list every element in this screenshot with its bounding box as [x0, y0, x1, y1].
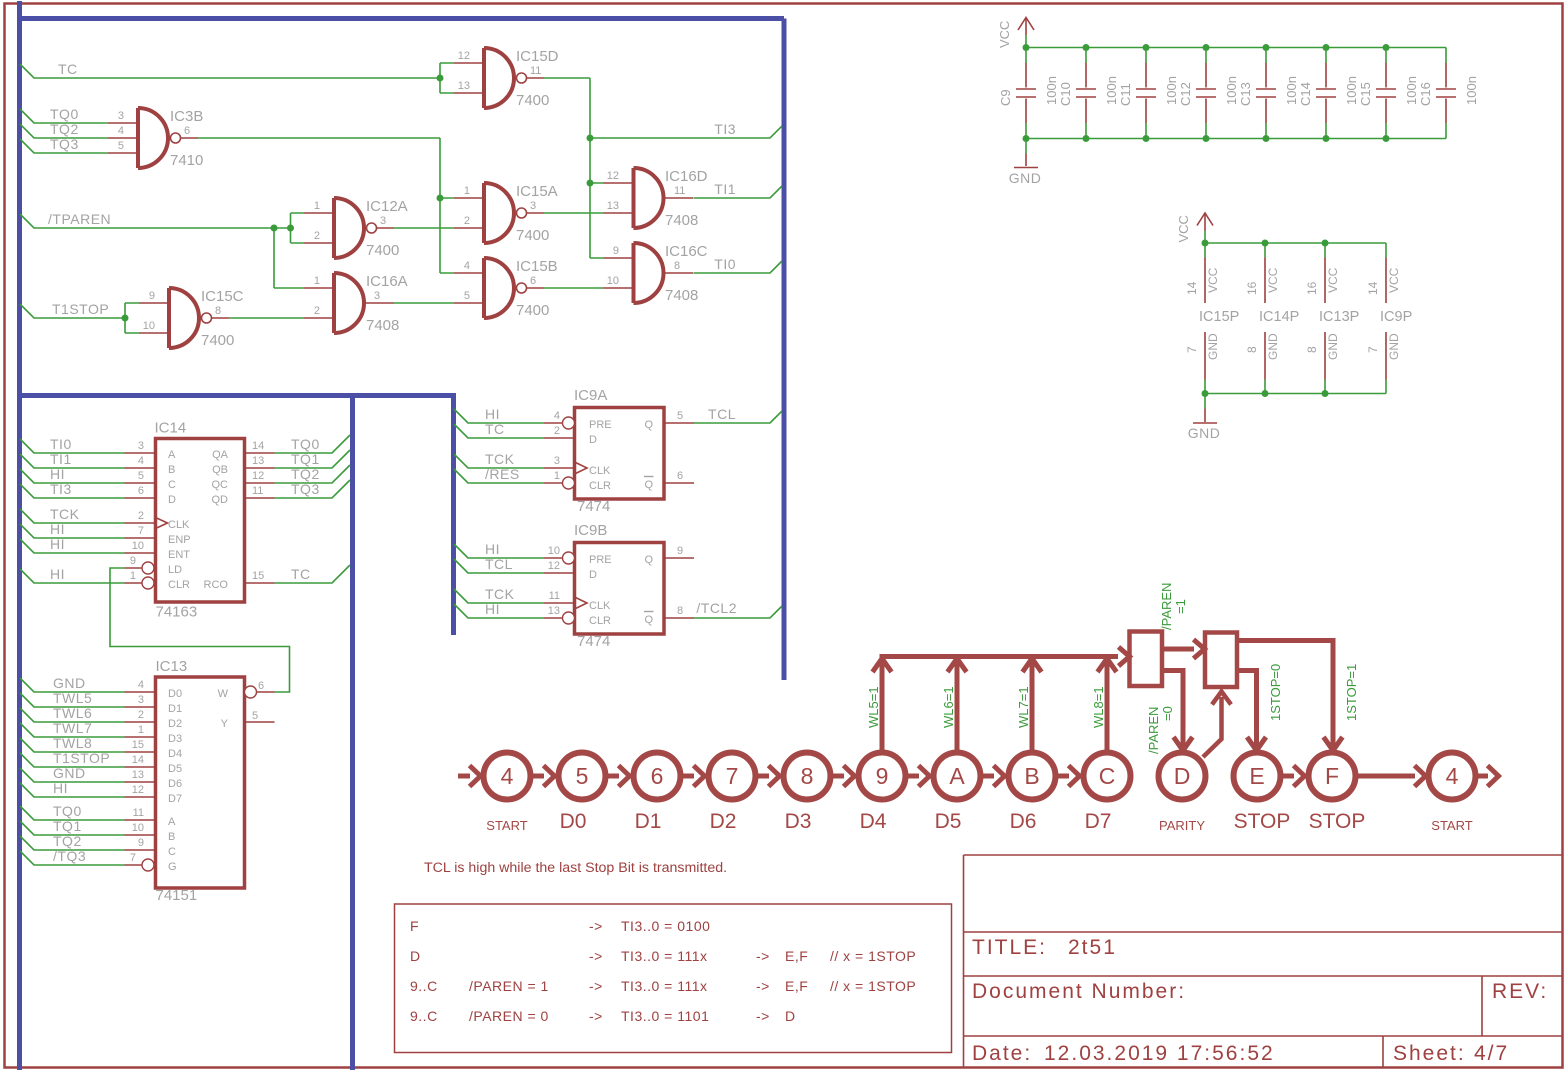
- svg-text:74151: 74151: [156, 887, 198, 904]
- svg-text:TQ0: TQ0: [53, 803, 82, 819]
- svg-text:B: B: [168, 831, 175, 843]
- svg-text:7400: 7400: [366, 242, 399, 259]
- svg-text:PRE: PRE: [589, 554, 612, 566]
- svg-text:D5: D5: [935, 810, 962, 833]
- svg-text:HI: HI: [50, 566, 65, 582]
- svg-text:100n: 100n: [1404, 76, 1419, 105]
- svg-text:D3: D3: [168, 733, 182, 745]
- svg-text:Q: Q: [644, 479, 653, 491]
- svg-text:C9: C9: [998, 89, 1013, 106]
- svg-text:100n: 100n: [1224, 76, 1239, 105]
- svg-text:CLK: CLK: [589, 600, 611, 612]
- svg-text:Y: Y: [221, 718, 229, 730]
- svg-text:TI0: TI0: [50, 436, 72, 452]
- svg-text:D4: D4: [860, 810, 887, 833]
- svg-text:Document Number:: Document Number:: [972, 980, 1186, 1003]
- svg-text:12: 12: [548, 560, 560, 572]
- svg-text:8: 8: [1305, 346, 1319, 353]
- svg-text:C14: C14: [1298, 82, 1313, 106]
- svg-text:7400: 7400: [516, 302, 549, 319]
- svg-text:VCC: VCC: [1176, 215, 1191, 242]
- svg-text:->: ->: [756, 978, 770, 994]
- svg-text:9: 9: [130, 555, 136, 567]
- svg-text:->: ->: [589, 948, 603, 964]
- svg-text:VCC: VCC: [1266, 267, 1280, 293]
- svg-text:6: 6: [651, 763, 664, 789]
- svg-text:TWL7: TWL7: [53, 720, 92, 736]
- svg-text:14: 14: [252, 440, 264, 452]
- svg-text:HI: HI: [53, 780, 68, 796]
- svg-text:3: 3: [118, 110, 124, 122]
- svg-text:HI: HI: [50, 466, 65, 482]
- svg-text:IC16C: IC16C: [665, 243, 708, 260]
- svg-text:HI: HI: [485, 541, 500, 557]
- svg-text:IC15A: IC15A: [516, 183, 558, 200]
- svg-text:/TCL2: /TCL2: [696, 600, 737, 616]
- svg-text:=0: =0: [1160, 706, 1175, 721]
- svg-text:QA: QA: [212, 449, 229, 461]
- svg-text:100n: 100n: [1044, 76, 1059, 105]
- svg-text:4: 4: [464, 260, 470, 272]
- svg-text:=1: =1: [1173, 599, 1188, 614]
- svg-text:PRE: PRE: [589, 419, 612, 431]
- svg-text:11: 11: [530, 65, 541, 77]
- svg-text:11: 11: [674, 185, 685, 197]
- svg-text:16: 16: [1305, 281, 1319, 295]
- svg-text:GND: GND: [1326, 333, 1340, 360]
- svg-text:->: ->: [756, 948, 770, 964]
- svg-text:7: 7: [138, 525, 144, 537]
- svg-text:Q: Q: [644, 614, 653, 626]
- svg-text:1: 1: [554, 470, 560, 482]
- svg-text:TWL8: TWL8: [53, 735, 92, 751]
- svg-text:WL8=1: WL8=1: [1091, 686, 1106, 728]
- svg-text:9: 9: [138, 837, 144, 849]
- svg-text:CLR: CLR: [589, 615, 611, 627]
- svg-text:VCC: VCC: [1387, 267, 1401, 293]
- svg-text:7474: 7474: [577, 498, 610, 515]
- svg-text:8: 8: [674, 260, 680, 272]
- svg-text:TWL5: TWL5: [53, 690, 92, 706]
- svg-text:WL6=1: WL6=1: [941, 686, 956, 728]
- svg-text:TQ0: TQ0: [291, 436, 320, 452]
- svg-text:11: 11: [252, 485, 263, 497]
- svg-text:TCK: TCK: [485, 451, 515, 467]
- svg-text:16: 16: [1245, 281, 1259, 295]
- svg-text:/TPAREN: /TPAREN: [48, 211, 111, 227]
- svg-text:13: 13: [458, 80, 470, 92]
- svg-text:C: C: [1099, 763, 1116, 789]
- svg-text:7400: 7400: [516, 92, 549, 109]
- svg-text:TWL6: TWL6: [53, 705, 92, 721]
- svg-text:START: START: [486, 818, 527, 833]
- svg-text:2: 2: [138, 709, 144, 721]
- svg-text:TQ1: TQ1: [53, 818, 82, 834]
- svg-text:C11: C11: [1118, 83, 1133, 106]
- svg-text:TI3: TI3: [50, 481, 72, 497]
- svg-text:ENT: ENT: [168, 549, 190, 561]
- svg-text:TI3..0 = 1101: TI3..0 = 1101: [621, 1008, 709, 1024]
- svg-text:D2: D2: [168, 718, 182, 730]
- svg-text:C: C: [168, 846, 176, 858]
- svg-text:7400: 7400: [201, 332, 234, 349]
- svg-text:TQ1: TQ1: [291, 451, 320, 467]
- svg-text:B: B: [1024, 763, 1039, 789]
- svg-text:REV:: REV:: [1492, 980, 1548, 1003]
- svg-text:D: D: [589, 434, 597, 446]
- svg-text:6: 6: [530, 275, 536, 287]
- svg-text:A: A: [949, 763, 965, 789]
- svg-text:8: 8: [677, 605, 683, 617]
- svg-text:9: 9: [149, 290, 155, 302]
- svg-text:C10: C10: [1058, 82, 1073, 106]
- svg-text:1: 1: [130, 570, 136, 582]
- svg-text:PARITY: PARITY: [1159, 818, 1205, 833]
- svg-text:4: 4: [554, 410, 560, 422]
- svg-text:7: 7: [726, 763, 739, 789]
- svg-text:TQ2: TQ2: [50, 121, 79, 137]
- svg-text:GND: GND: [53, 765, 86, 781]
- svg-text:HI: HI: [50, 521, 65, 537]
- svg-text:6: 6: [258, 680, 264, 692]
- svg-text:D1: D1: [168, 703, 182, 715]
- svg-text:IC13: IC13: [156, 658, 188, 675]
- svg-text:5: 5: [677, 410, 683, 422]
- svg-text:D0: D0: [560, 810, 587, 833]
- svg-text:->: ->: [589, 918, 603, 934]
- svg-text:TI3..0 = 111x: TI3..0 = 111x: [621, 948, 708, 964]
- svg-text:7408: 7408: [366, 317, 399, 334]
- svg-text:2t51: 2t51: [1068, 936, 1117, 959]
- svg-text:14: 14: [1185, 281, 1199, 295]
- svg-text:1: 1: [314, 200, 320, 212]
- svg-text:GND: GND: [1387, 333, 1401, 360]
- svg-text:1: 1: [138, 724, 144, 736]
- svg-text:TQ0: TQ0: [50, 106, 79, 122]
- svg-text:HI: HI: [50, 536, 65, 552]
- svg-text:9: 9: [677, 545, 683, 557]
- svg-text:10: 10: [607, 275, 619, 287]
- svg-text:IC9P: IC9P: [1380, 309, 1412, 325]
- svg-text:2: 2: [314, 230, 320, 242]
- svg-text:10: 10: [132, 540, 144, 552]
- svg-text:3: 3: [554, 455, 560, 467]
- svg-text:11: 11: [133, 807, 144, 819]
- svg-text:2: 2: [464, 215, 470, 227]
- svg-text:13: 13: [548, 605, 560, 617]
- svg-text:3: 3: [374, 290, 380, 302]
- svg-text:D3: D3: [785, 810, 812, 833]
- svg-text:F: F: [410, 918, 419, 934]
- svg-text:14: 14: [1366, 281, 1380, 295]
- svg-text:4: 4: [501, 763, 514, 789]
- svg-text:TI0: TI0: [714, 256, 736, 272]
- svg-text:Date:: Date:: [972, 1042, 1032, 1065]
- svg-text:E,F: E,F: [785, 978, 808, 994]
- svg-text:7410: 7410: [170, 152, 203, 169]
- svg-text:D: D: [785, 1008, 796, 1024]
- svg-text:11: 11: [549, 590, 560, 602]
- svg-text:ENP: ENP: [168, 534, 191, 546]
- svg-text:->: ->: [589, 1008, 603, 1024]
- svg-text:13: 13: [132, 769, 144, 781]
- svg-text:IC9B: IC9B: [574, 522, 607, 539]
- svg-text:G: G: [168, 861, 177, 873]
- svg-text:10: 10: [132, 822, 144, 834]
- svg-text:A: A: [168, 449, 176, 461]
- svg-text:1STOP=1: 1STOP=1: [1344, 664, 1359, 721]
- svg-text:IC14P: IC14P: [1259, 309, 1299, 325]
- svg-text:3: 3: [138, 694, 144, 706]
- svg-text:TQ2: TQ2: [53, 833, 82, 849]
- svg-text:/PAREN = 1: /PAREN = 1: [469, 978, 549, 994]
- svg-text:7400: 7400: [516, 227, 549, 244]
- svg-text:8: 8: [215, 305, 221, 317]
- svg-text:Q: Q: [644, 554, 653, 566]
- svg-text:GND: GND: [1188, 425, 1221, 441]
- svg-text:4/7: 4/7: [1474, 1042, 1509, 1065]
- svg-text:QC: QC: [212, 479, 229, 491]
- svg-text:100n: 100n: [1464, 76, 1479, 105]
- svg-text:D7: D7: [168, 793, 182, 805]
- svg-text:IC15C: IC15C: [201, 288, 244, 305]
- svg-text:TI3..0 = 111x: TI3..0 = 111x: [621, 978, 708, 994]
- svg-text:C15: C15: [1358, 82, 1373, 106]
- svg-text:100n: 100n: [1344, 76, 1359, 105]
- svg-text:9..C: 9..C: [410, 978, 438, 994]
- svg-text:9: 9: [876, 763, 889, 789]
- svg-text:/PAREN: /PAREN: [1159, 583, 1174, 630]
- svg-text:D0: D0: [168, 688, 182, 700]
- svg-text:4: 4: [1446, 763, 1459, 789]
- svg-text:7408: 7408: [665, 287, 698, 304]
- svg-text:IC16D: IC16D: [665, 168, 708, 185]
- svg-text:TCK: TCK: [50, 506, 80, 522]
- svg-text:CLK: CLK: [589, 465, 611, 477]
- svg-text:D5: D5: [168, 763, 182, 775]
- svg-text:IC12A: IC12A: [366, 198, 408, 215]
- svg-text:IC3B: IC3B: [170, 108, 203, 125]
- svg-text:6: 6: [138, 485, 144, 497]
- svg-text:7: 7: [1366, 346, 1380, 353]
- svg-text:B: B: [168, 464, 175, 476]
- svg-text:7: 7: [1185, 346, 1199, 353]
- svg-text:D: D: [589, 569, 597, 581]
- svg-text:E,F: E,F: [785, 948, 808, 964]
- svg-text:/PAREN = 0: /PAREN = 0: [469, 1008, 549, 1024]
- svg-text:12: 12: [458, 50, 470, 62]
- svg-text:START: START: [1431, 818, 1472, 833]
- svg-text:2: 2: [554, 425, 560, 437]
- svg-text:14: 14: [132, 754, 144, 766]
- svg-text:8: 8: [801, 763, 814, 789]
- svg-text:TCL is high while the last Sto: TCL is high while the last Stop Bit is t…: [424, 860, 727, 876]
- svg-text:12.03.2019 17:56:52: 12.03.2019 17:56:52: [1044, 1042, 1275, 1065]
- svg-text:IC15D: IC15D: [516, 48, 559, 65]
- svg-text:Q: Q: [644, 419, 653, 431]
- svg-text:TQ3: TQ3: [291, 481, 320, 497]
- svg-text:12: 12: [132, 784, 144, 796]
- svg-text:T1STOP: T1STOP: [52, 301, 109, 317]
- svg-text:IC9A: IC9A: [574, 387, 607, 404]
- svg-text:C12: C12: [1178, 82, 1193, 106]
- svg-text:100n: 100n: [1284, 76, 1299, 105]
- svg-text:HI: HI: [485, 406, 500, 422]
- svg-text:2: 2: [314, 305, 320, 317]
- svg-text:LD: LD: [168, 564, 182, 576]
- svg-text:TITLE:: TITLE:: [972, 936, 1047, 959]
- svg-text:9: 9: [613, 245, 619, 257]
- svg-text:TCL: TCL: [485, 556, 513, 572]
- svg-text:CLK: CLK: [168, 519, 190, 531]
- svg-text:E: E: [1249, 763, 1264, 789]
- svg-text:D4: D4: [168, 748, 182, 760]
- svg-text:// x = 1STOP: // x = 1STOP: [830, 948, 916, 964]
- svg-text:12: 12: [252, 470, 264, 482]
- svg-text:->: ->: [756, 1008, 770, 1024]
- svg-text:4: 4: [138, 679, 144, 691]
- svg-text:5: 5: [118, 140, 124, 152]
- svg-text:STOP: STOP: [1234, 810, 1291, 833]
- svg-text:5: 5: [576, 763, 589, 789]
- svg-text:IC15B: IC15B: [516, 258, 558, 275]
- svg-text:TI3: TI3: [714, 121, 736, 137]
- svg-text:6: 6: [184, 125, 190, 137]
- svg-text:HI: HI: [485, 601, 500, 617]
- svg-text:7: 7: [130, 852, 136, 864]
- svg-text:6: 6: [677, 470, 683, 482]
- svg-text:W: W: [218, 688, 229, 700]
- svg-text:10: 10: [143, 320, 155, 332]
- svg-text:4: 4: [118, 125, 124, 137]
- svg-text:7474: 7474: [577, 633, 610, 650]
- svg-text:IC16A: IC16A: [366, 273, 408, 290]
- svg-text:15: 15: [132, 739, 144, 751]
- svg-text:TCL: TCL: [708, 406, 736, 422]
- svg-text:74163: 74163: [156, 604, 198, 621]
- svg-text:13: 13: [607, 200, 619, 212]
- svg-text:/TQ3: /TQ3: [53, 848, 86, 864]
- svg-text:1: 1: [314, 275, 320, 287]
- svg-text:GND: GND: [1009, 170, 1042, 186]
- svg-text:TCK: TCK: [485, 586, 515, 602]
- svg-text:WL7=1: WL7=1: [1016, 686, 1031, 728]
- svg-text:9..C: 9..C: [410, 1008, 438, 1024]
- svg-text:D2: D2: [710, 810, 737, 833]
- svg-text:->: ->: [589, 978, 603, 994]
- svg-text:C13: C13: [1238, 82, 1253, 106]
- svg-text:VCC: VCC: [1206, 267, 1220, 293]
- svg-text:D: D: [168, 494, 176, 506]
- svg-text:5: 5: [252, 710, 258, 722]
- svg-text:3: 3: [530, 200, 536, 212]
- svg-text:TC: TC: [291, 566, 311, 582]
- svg-text:F: F: [1325, 763, 1339, 789]
- svg-text:12: 12: [607, 170, 619, 182]
- svg-text:1: 1: [464, 185, 470, 197]
- svg-text:VCC: VCC: [1326, 267, 1340, 293]
- svg-text:QB: QB: [212, 464, 228, 476]
- svg-text:D6: D6: [1010, 810, 1037, 833]
- svg-text:TC: TC: [58, 61, 78, 77]
- svg-text:GND: GND: [53, 675, 86, 691]
- svg-text:TI1: TI1: [714, 181, 736, 197]
- svg-text:1STOP=0: 1STOP=0: [1268, 664, 1283, 721]
- svg-text:TQ3: TQ3: [50, 136, 79, 152]
- svg-text:D7: D7: [1085, 810, 1112, 833]
- svg-text:T1STOP: T1STOP: [53, 750, 110, 766]
- svg-text:Sheet:: Sheet:: [1393, 1042, 1466, 1065]
- svg-text:IC13P: IC13P: [1319, 309, 1359, 325]
- svg-text:7408: 7408: [665, 212, 698, 229]
- svg-text:/PAREN: /PAREN: [1146, 707, 1161, 754]
- svg-text:100n: 100n: [1164, 76, 1179, 105]
- svg-text:WL5=1: WL5=1: [866, 686, 881, 728]
- svg-text:15: 15: [252, 570, 264, 582]
- svg-text:TQ2: TQ2: [291, 466, 320, 482]
- svg-text:8: 8: [1245, 346, 1259, 353]
- svg-text:3: 3: [380, 215, 386, 227]
- svg-text:10: 10: [548, 545, 560, 557]
- svg-text:// x = 1STOP: // x = 1STOP: [830, 978, 916, 994]
- svg-text:CLR: CLR: [168, 579, 190, 591]
- svg-text:QD: QD: [212, 494, 229, 506]
- svg-text:5: 5: [464, 290, 470, 302]
- svg-text:3: 3: [138, 440, 144, 452]
- svg-text:IC14: IC14: [155, 420, 187, 437]
- svg-text:D: D: [410, 948, 421, 964]
- svg-text:GND: GND: [1266, 333, 1280, 360]
- svg-text:D1: D1: [635, 810, 662, 833]
- svg-text:RCO: RCO: [204, 579, 229, 591]
- svg-text:CLR: CLR: [589, 480, 611, 492]
- svg-text:4: 4: [138, 455, 144, 467]
- svg-text:TI1: TI1: [50, 451, 72, 467]
- svg-text:STOP: STOP: [1309, 810, 1366, 833]
- svg-text:VCC: VCC: [997, 21, 1012, 48]
- svg-text:D: D: [1174, 763, 1191, 789]
- svg-text:GND: GND: [1206, 333, 1220, 360]
- svg-text:13: 13: [252, 455, 264, 467]
- svg-text:100n: 100n: [1104, 76, 1119, 105]
- svg-text:/RES: /RES: [485, 466, 520, 482]
- svg-text:5: 5: [138, 470, 144, 482]
- svg-text:C: C: [168, 479, 176, 491]
- svg-text:A: A: [168, 816, 176, 828]
- svg-text:D6: D6: [168, 778, 182, 790]
- svg-text:TC: TC: [485, 421, 505, 437]
- svg-text:2: 2: [138, 510, 144, 522]
- svg-text:IC15P: IC15P: [1199, 309, 1239, 325]
- svg-text:C16: C16: [1418, 82, 1433, 106]
- svg-text:TI3..0 = 0100: TI3..0 = 0100: [621, 918, 710, 934]
